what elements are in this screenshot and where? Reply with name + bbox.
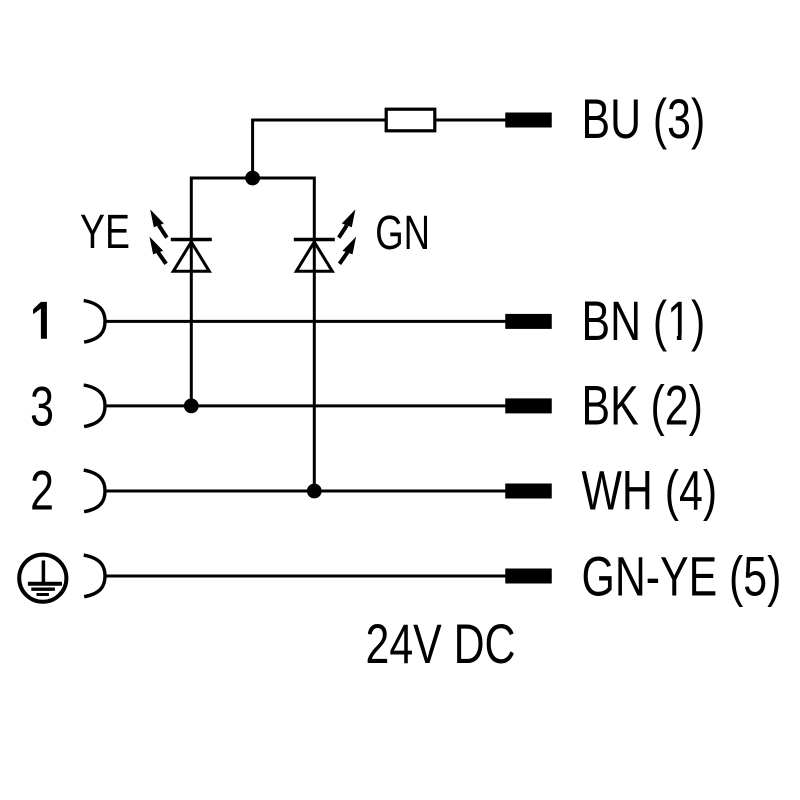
svg-text:GN-YE (5): GN-YE (5) [582, 545, 782, 608]
svg-text:YE: YE [80, 206, 130, 260]
svg-text:BN (1): BN (1) [582, 289, 706, 352]
svg-text:24V DC: 24V DC [366, 612, 516, 675]
svg-text:GN: GN [375, 206, 430, 260]
svg-text:BU (3): BU (3) [582, 87, 706, 150]
svg-text:BK (2): BK (2) [582, 374, 703, 437]
svg-text:WH (4): WH (4) [582, 459, 718, 522]
svg-text:3: 3 [30, 375, 54, 438]
svg-text:2: 2 [30, 459, 54, 522]
